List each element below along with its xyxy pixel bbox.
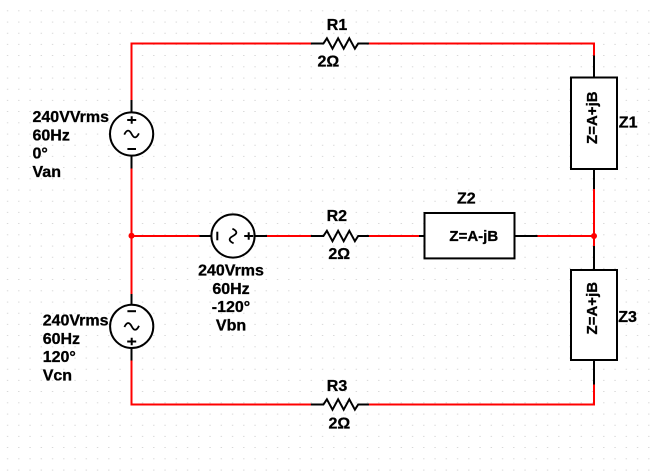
wire: middle rail red segment R2 to Z2 bbox=[368, 235, 420, 237]
wire: top rail left red segment (node A) bbox=[132, 44, 312, 101]
svg-text:Z2: Z2 bbox=[457, 191, 476, 208]
svg-text:-120°: -120° bbox=[212, 299, 250, 316]
wire: left rail bottom red segment (Vcn to bottom corner) bbox=[132, 360, 312, 405]
resistor R2 bbox=[312, 231, 368, 241]
svg-text:0°: 0° bbox=[33, 146, 48, 163]
node B junction dot bbox=[591, 233, 597, 239]
resistor R1 label R1 bbox=[327, 17, 348, 34]
wire: black stub right of Z2 bbox=[514, 235, 538, 237]
resistor R3 value 2&#937; bbox=[329, 415, 351, 432]
resistor R1 bbox=[312, 38, 368, 48]
wire: black stub above Z1 bbox=[593, 56, 595, 79]
svg-text:Van: Van bbox=[33, 164, 61, 181]
svg-text:Z3: Z3 bbox=[618, 309, 637, 326]
svg-text:60Hz: 60Hz bbox=[212, 281, 249, 298]
impedance box Z3 label Z3 bbox=[618, 309, 637, 326]
wire: black stub above Z3 bbox=[593, 246, 595, 271]
resistor R2 value 2&#937; bbox=[328, 246, 350, 263]
svg-text:Z1: Z1 bbox=[619, 115, 638, 132]
AC source V3 Vcn (minus top, + bottom) bbox=[110, 305, 153, 348]
wire: black stub below Z1 bbox=[593, 168, 595, 189]
AC source V2 Vbn (rotated, + right) bbox=[211, 214, 254, 257]
wire: middle rail red segment node N to Vbn bbox=[132, 235, 200, 237]
wire: bottom rail right red segment bbox=[368, 384, 594, 405]
resistor R1 value 2&#937; bbox=[318, 53, 340, 70]
impedance box Z3 bbox=[571, 270, 617, 360]
wire: black stub below Van bbox=[131, 156, 133, 169]
svg-text:2Ω: 2Ω bbox=[328, 246, 350, 263]
svg-text:2Ω: 2Ω bbox=[329, 415, 351, 432]
svg-text:Z=A+jB: Z=A+jB bbox=[584, 91, 601, 144]
node N junction dot bbox=[129, 233, 135, 239]
wire: right rail red segment Z1 to node B bbox=[593, 189, 595, 247]
svg-text:240Vrms: 240Vrms bbox=[198, 263, 264, 280]
svg-text:Vcn: Vcn bbox=[43, 368, 72, 385]
wire: black stub below Z3 bbox=[593, 359, 595, 385]
wire: black stub left of Z2 bbox=[419, 235, 425, 237]
AC source V2 labels: 240Vrms 60Hz -120deg Vbn bbox=[198, 263, 264, 335]
impedance box Z1 bbox=[571, 78, 617, 170]
svg-text:120°: 120° bbox=[43, 349, 76, 366]
AC source V1 labels: 240VVrms 60Hz 0deg Van bbox=[33, 109, 110, 181]
svg-text:240VVrms: 240VVrms bbox=[33, 109, 110, 126]
wire: left rail middle red segment (Van minus to node N) bbox=[131, 168, 133, 294]
wire: black stub below Vcn bbox=[131, 347, 133, 360]
wire: black stub above Vcn bbox=[131, 294, 133, 306]
impedance box Z2 label Z2 bbox=[457, 191, 476, 208]
resistor R3 bbox=[312, 399, 368, 409]
svg-text:R2: R2 bbox=[327, 208, 348, 225]
svg-text:Z=A-jB: Z=A-jB bbox=[449, 228, 498, 245]
wire: middle rail red segment Vbn to R2 bbox=[267, 235, 312, 237]
wire: black stub right of Vbn bbox=[255, 235, 268, 237]
AC source V1 Van bbox=[110, 112, 153, 155]
impedance box Z2 bbox=[425, 213, 515, 258]
wire: middle rail red segment Z2 to node B bbox=[537, 235, 594, 237]
wire: top rail right red segment bbox=[368, 44, 594, 57]
wire: black stub left of Vbn bbox=[200, 235, 212, 237]
AC source V3 labels: 240Vrms 60Hz 120deg Vcn bbox=[43, 313, 109, 385]
svg-text:Vbn: Vbn bbox=[216, 317, 246, 334]
svg-text:60Hz: 60Hz bbox=[33, 127, 70, 144]
impedance box Z1 label Z1 bbox=[619, 115, 638, 132]
svg-text:R3: R3 bbox=[327, 378, 348, 395]
resistor R2 label R2 bbox=[327, 208, 348, 225]
svg-text:60Hz: 60Hz bbox=[43, 331, 80, 348]
wire: black stub above Van bbox=[131, 100, 133, 112]
resistor R3 label R3 bbox=[327, 378, 348, 395]
svg-text:R1: R1 bbox=[327, 17, 348, 34]
svg-text:240Vrms: 240Vrms bbox=[43, 313, 109, 330]
svg-text:Z=A+jB: Z=A+jB bbox=[584, 282, 601, 335]
svg-text:2Ω: 2Ω bbox=[318, 53, 340, 70]
